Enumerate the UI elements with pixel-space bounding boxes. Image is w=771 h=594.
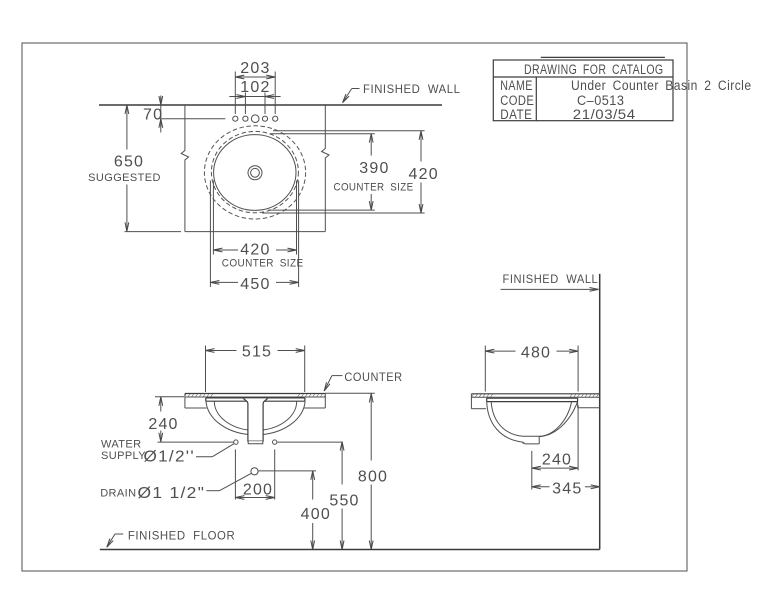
dim 102 line with outside arrows (229, 96, 280, 98)
side: counter hatch bottom line (471, 396, 599, 398)
svg-text:DATE: DATE (500, 107, 532, 122)
front: supply leader (196, 444, 234, 457)
side: finished wall underline with arrow (501, 288, 599, 290)
dim 450 extension lines (210, 181, 298, 288)
front: dim 240 line (160, 397, 162, 442)
front: dim 550 line (341, 442, 343, 550)
svg-text:C–0513: C–0513 (577, 93, 624, 108)
svg-text:390: 390 (359, 160, 389, 177)
front: counter left edge (184, 394, 186, 409)
svg-text:FINISHED FLOOR: FINISHED FLOOR (128, 529, 235, 543)
dim 450 line (210, 281, 298, 283)
side: dim 240 extension lines (532, 405, 578, 490)
dim 390 line (370, 134, 372, 210)
front: counter hatch bottom line (185, 396, 325, 398)
plan: basin outer dashed ellipse (204, 126, 305, 219)
plan: faucet hole circles (233, 115, 278, 123)
svg-text:COUNTER: COUNTER (344, 370, 402, 384)
side: basin flange (487, 398, 578, 401)
svg-text:420: 420 (409, 166, 439, 183)
svg-text:Ø1/2'': Ø1/2'' (144, 449, 195, 466)
dim 420 right bottom extension (262, 212, 425, 214)
svg-text:SUPPLY: SUPPLY (101, 450, 146, 462)
front: counter hatch right (296, 394, 325, 398)
svg-text:COUNTER SIZE: COUNTER SIZE (222, 258, 304, 270)
svg-text:200: 200 (243, 482, 273, 499)
front: bowl inner curve (214, 401, 296, 430)
front: water supply circle left (234, 440, 238, 444)
svg-text:70: 70 (143, 106, 163, 123)
side: basin back edge (577, 402, 579, 408)
plan: counter rectangle left edge with break (181, 105, 188, 232)
svg-text:NAME: NAME (500, 78, 533, 93)
dim 390 bottom extension (268, 209, 375, 211)
svg-text:FINISHED WALL: FINISHED WALL (503, 272, 599, 286)
svg-text:DRAIN: DRAIN (100, 487, 136, 499)
svg-text:21/03/54: 21/03/54 (573, 107, 636, 122)
plan: counter rectangle right edge with break (322, 105, 329, 232)
dim 203 line (235, 76, 275, 78)
front: drain foot (248, 441, 263, 444)
front: drain stem (243, 398, 267, 441)
svg-text:Under Counter Basin 2 Circ: Under Counter Basin 2 Circle (571, 78, 752, 93)
svg-text:DRAWING FOR CATALOG: DRAWING FOR CATALOG (524, 62, 664, 77)
plan: drain outer circle (248, 166, 262, 180)
front: drain circle (251, 468, 258, 475)
svg-text:420: 420 (240, 242, 270, 259)
svg-text:Ø1 1/2": Ø1 1/2" (138, 485, 206, 502)
side: bowl outer curve (487, 402, 578, 444)
svg-text:WATER: WATER (101, 438, 142, 450)
front: dim 200 extension lines (235, 449, 274, 499)
side: counter hatch left (471, 394, 493, 398)
svg-text:400: 400 (301, 506, 331, 523)
svg-text:SUGGESTED: SUGGESTED (88, 172, 161, 184)
dim 203 extension lines (235, 72, 275, 115)
dim 420 right line (420, 131, 422, 213)
dim 70 extension line (162, 118, 226, 120)
front: dim 240 top extension (155, 396, 184, 398)
dim 70 line with outside arrows (160, 96, 162, 133)
svg-text:240: 240 (148, 416, 178, 433)
plan: finished wall leader (343, 89, 360, 103)
front: counter slab top line (185, 393, 325, 395)
front: counter right bottom line (304, 407, 325, 409)
front: dim 400 line (312, 471, 314, 550)
svg-text:CODE: CODE (500, 93, 534, 108)
plan: counter rectangle bottom edge (185, 231, 325, 233)
page border frame (22, 43, 687, 571)
svg-text:650: 650 (114, 154, 144, 171)
front: water supply line left (158, 441, 234, 443)
front: drain leader (206, 473, 251, 490)
dim 650 line (126, 105, 128, 231)
finished floor line (100, 549, 600, 551)
side: wall vertical line (599, 274, 601, 550)
svg-text:FINISHED WALL: FINISHED WALL (363, 82, 461, 96)
dim 650 bottom extension (125, 231, 182, 233)
side: dim 345 line (532, 486, 600, 488)
svg-text:240: 240 (542, 451, 572, 468)
side: counter left bottom line (471, 408, 486, 410)
front: counter right edge (324, 394, 326, 409)
svg-text:550: 550 (329, 493, 359, 510)
side: counter left edge (470, 394, 472, 409)
front: dim 800 top extension (325, 392, 375, 394)
dim 420 bottom extension lines (213, 181, 296, 255)
svg-text:203: 203 (240, 60, 270, 77)
dim 420 right top extension (273, 130, 425, 132)
plan: basin mid dashed ellipse (211, 131, 298, 212)
side: bowl inner curve (491, 402, 571, 437)
title block extra top line (541, 56, 665, 58)
front: water supply line right (277, 441, 342, 443)
svg-text:102: 102 (240, 79, 270, 96)
dim 102 extension lines (245, 93, 265, 115)
front: counter left bottom line (185, 407, 207, 409)
side: dim 480 extension lines (485, 346, 578, 392)
plan: drain inner circle (251, 168, 260, 177)
front: counter leader (324, 376, 342, 391)
side: counter right bottom line (578, 407, 600, 409)
front: dim 515 extension lines (206, 346, 305, 393)
front: basin flange (206, 398, 305, 401)
front: dim 515 line (206, 350, 305, 352)
finished floor leader (107, 534, 123, 547)
side: drain foot edge (522, 442, 525, 444)
plan: basin solid rim ellipse (214, 135, 296, 211)
svg-text:345: 345 (552, 480, 582, 497)
front: counter hatch left (185, 394, 215, 398)
dim 390 top extension (270, 133, 375, 135)
dim 420 bottom line (213, 249, 296, 251)
svg-text:480: 480 (521, 344, 551, 361)
side: dim 480 line (485, 350, 578, 352)
side: dim 240 line (532, 467, 578, 469)
front: water supply circle right (273, 440, 277, 444)
svg-text:COUNTER SIZE: COUNTER SIZE (334, 182, 414, 194)
svg-text:800: 800 (358, 468, 388, 485)
front: bowl outer curve (206, 401, 305, 435)
side: counter hatch right (569, 394, 600, 398)
front: dim 400 top extension (259, 470, 317, 472)
svg-text:450: 450 (240, 276, 270, 293)
title block table (493, 60, 673, 121)
side: counter slab top line (471, 393, 599, 395)
front: dim 800 line (370, 394, 372, 550)
front: dim 200 line (235, 497, 274, 499)
svg-text:515: 515 (242, 344, 272, 361)
plan: finished wall line (99, 104, 442, 106)
